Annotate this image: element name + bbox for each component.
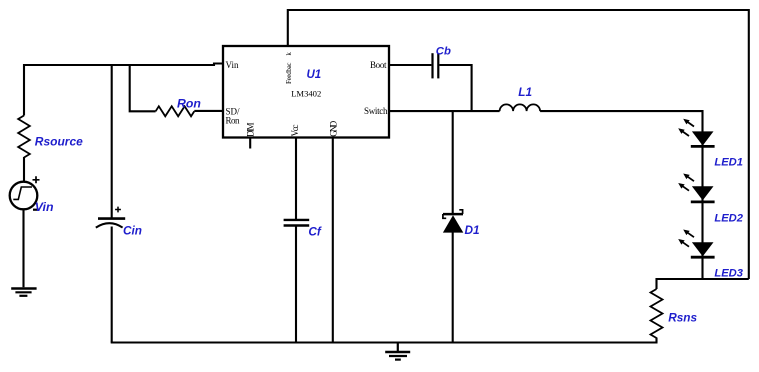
plus sign: [33, 176, 40, 183]
wire top bus from source to U1 Vin pin: [24, 64, 223, 66]
op IC U1 box: [223, 46, 389, 138]
wire bottom bus: [111, 341, 658, 343]
diode D1 branch from switch node: [452, 111, 454, 214]
resistor Ron: [156, 106, 195, 116]
wire Rsource to source: [23, 157, 25, 182]
svg-text:L1: L1: [518, 85, 532, 99]
wire Boot pin to Cb: [389, 64, 431, 66]
minus sign: [33, 209, 40, 211]
svg-text:Rsns: Rsns: [668, 311, 697, 325]
svg-text:Vcc: Vcc: [290, 125, 300, 137]
wire Cf to bottom bus: [295, 226, 297, 343]
LED3: [678, 230, 714, 258]
wire Ron branch down then right: [130, 65, 156, 111]
voltage source Vin circle: [10, 182, 38, 210]
resistor Rsns: [651, 289, 663, 338]
svg-text:Feedbac: Feedbac: [285, 63, 293, 85]
wire Vcc pin to Cf: [295, 138, 297, 220]
svg-text:Ron: Ron: [177, 96, 201, 110]
svg-text:Rsource: Rsource: [35, 135, 83, 149]
svg-text:Boot: Boot: [370, 60, 387, 70]
wire Cin branch down from bus: [111, 65, 113, 218]
resistor Rsource: [18, 116, 30, 158]
wire source to ground: [22, 209, 24, 287]
svg-text:LED1: LED1: [714, 156, 743, 168]
capacitor Cb: [433, 53, 439, 78]
diode D1 (schottky): [443, 210, 463, 233]
ground (left): [11, 289, 36, 296]
LED1: [678, 119, 714, 147]
svg-text:LM3402: LM3402: [291, 88, 321, 98]
wire Ron to SD/Ron pin: [194, 110, 222, 112]
svg-text:Switch: Switch: [364, 106, 388, 116]
svg-text:Cin: Cin: [123, 224, 142, 238]
svg-text:LED2: LED2: [714, 212, 743, 224]
wire left vertical from bus to Rsource: [23, 64, 25, 116]
wire D1 to bottom bus: [452, 232, 454, 343]
wire Cb right then down to switch node: [439, 65, 471, 111]
capacitor Cf: [284, 220, 310, 226]
wire Rsns to bottom bus: [655, 338, 657, 343]
svg-text:U1: U1: [307, 69, 322, 81]
wire LED3 node left to Rsns: [657, 279, 749, 289]
LED2: [678, 174, 714, 202]
svg-text:k: k: [285, 52, 293, 56]
svg-text:Vin: Vin: [226, 60, 239, 70]
plus sign Cin: [115, 207, 121, 213]
wire Switch pin to L1: [389, 110, 500, 112]
svg-text:Cb: Cb: [436, 45, 451, 57]
svg-text:Cf: Cf: [308, 224, 322, 238]
inductor L1: [500, 104, 540, 111]
wire Cin to bottom bus: [111, 227, 113, 343]
svg-text:Ron: Ron: [226, 115, 241, 125]
wire Feedback pin up, top bus right, down right side: [288, 10, 749, 279]
wire L1 to LED string corner: [540, 111, 702, 279]
step waveform inside source: [13, 187, 32, 199]
svg-text:LED3: LED3: [714, 267, 743, 279]
svg-text:GND: GND: [329, 120, 339, 137]
capacitor Cin (polarized): [96, 219, 125, 228]
svg-text:Vin: Vin: [35, 200, 54, 214]
svg-text:DIM: DIM: [245, 123, 255, 138]
wire GND pin to bottom bus: [332, 138, 334, 343]
svg-text:D1: D1: [465, 223, 480, 237]
ground (center, on bottom bus): [385, 343, 410, 360]
pin stub DIM: [249, 138, 251, 149]
